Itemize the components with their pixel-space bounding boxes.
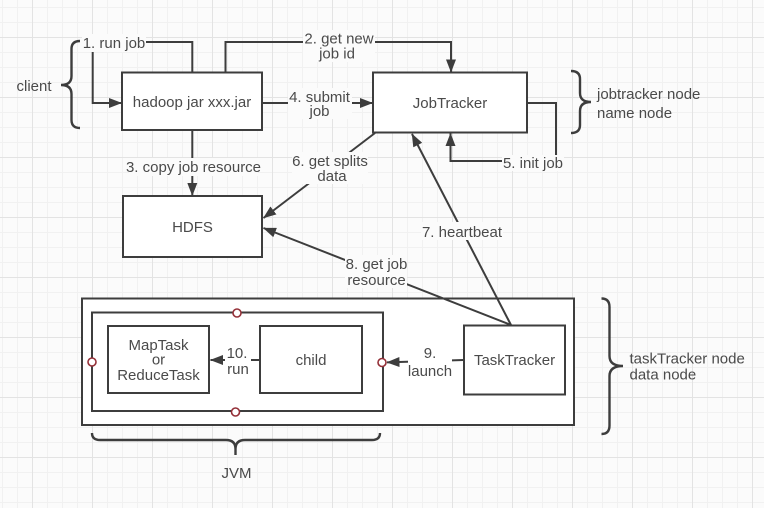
label 2. get new job id: [303, 30, 375, 63]
svg-text:3. copy job resource: 3. copy job resource: [126, 159, 261, 176]
label client: [16, 78, 52, 95]
wire 3: hadoop bottom to HDFS top: [191, 131, 193, 196]
brace client (left): [61, 41, 80, 128]
box hadoop jar xxx.jar: [122, 73, 262, 131]
svg-text:hadoop jar xxx.jar: hadoop jar xxx.jar: [133, 94, 251, 111]
svg-text:HDFS: HDFS: [172, 219, 213, 236]
box inner JVM container: [92, 313, 383, 412]
label taskTracker node / data node: [630, 351, 745, 384]
svg-text:child: child: [296, 352, 327, 369]
label 10. run: [225, 345, 251, 378]
svg-text:jobtracker node: jobtracker node: [596, 86, 700, 103]
wire 9: TaskTracker left to inner JVM box (launch): [387, 360, 463, 362]
svg-text:JVM: JVM: [222, 465, 252, 482]
label 3. copy job resource: [126, 158, 261, 176]
brace JVM (bottom): [92, 433, 380, 455]
svg-text:7. heartbeat: 7. heartbeat: [422, 224, 503, 241]
node connection point left of JVM box: [88, 358, 96, 366]
svg-text:launch: launch: [408, 363, 452, 380]
svg-text:job: job: [308, 103, 329, 120]
brace jobtracker node (right of JobTracker): [571, 71, 591, 133]
label jobtracker node / name node: [596, 86, 700, 122]
label 1. run job: [82, 34, 146, 52]
wire 2: hadoop top to JobTracker top: [226, 42, 452, 72]
svg-text:resource: resource: [347, 272, 405, 289]
svg-text:taskTracker node: taskTracker node: [630, 351, 745, 368]
node connection point bottom of JVM box: [232, 408, 240, 416]
node connection point right of JVM box: [378, 359, 386, 367]
svg-text:run: run: [227, 361, 249, 378]
svg-text:8. get job: 8. get job: [346, 256, 408, 273]
wire 1a: from label "1. run job" to top of hadoop box: [146, 42, 192, 72]
wire 10: child left to MapTask right (run): [211, 359, 260, 361]
box MapTask or ReduceTask: [108, 326, 209, 393]
wire 7: TaskTracker top to JobTracker bottom (heartbeat): [412, 134, 511, 325]
wire 1b: arrow into left side of hadoop box: [93, 52, 122, 103]
svg-text:ReduceTask: ReduceTask: [117, 367, 200, 384]
wire 5: JobTracker right loop back into bottom: [451, 103, 557, 161]
svg-text:data: data: [317, 168, 347, 185]
label 5. init job: [502, 155, 564, 172]
svg-text:or: or: [152, 352, 165, 369]
box JobTracker: [373, 73, 527, 133]
label 9. launch: [408, 344, 452, 380]
label 4. submit job: [288, 88, 352, 120]
box TaskTracker: [464, 326, 565, 395]
svg-text:data node: data node: [630, 367, 697, 384]
svg-text:5. init job: 5. init job: [503, 155, 563, 172]
svg-text:1. run job: 1. run job: [83, 35, 146, 52]
label 7. heartbeat: [421, 222, 503, 241]
label 6. get splits data: [292, 152, 368, 185]
box outer tasktracker-node container: [82, 299, 574, 426]
svg-text:9.: 9.: [424, 345, 437, 362]
box child: [260, 326, 362, 393]
node connection point top of JVM box: [233, 309, 241, 317]
wire 4: hadoop right to JobTracker left: [263, 102, 373, 104]
svg-text:job id: job id: [318, 46, 355, 63]
svg-text:TaskTracker: TaskTracker: [474, 352, 555, 369]
label 8. get job resource: [345, 255, 407, 289]
brace taskTracker node (right of container): [602, 299, 624, 435]
wire 6: JobTracker bottom-left to HDFS right: [264, 133, 376, 218]
svg-text:JobTracker: JobTracker: [413, 95, 487, 112]
label JVM: [222, 465, 252, 482]
svg-text:name node: name node: [597, 105, 672, 122]
svg-text:client: client: [16, 78, 52, 95]
box HDFS: [123, 196, 262, 257]
svg-text:10.: 10.: [227, 345, 248, 362]
wire 8: TaskTracker top to HDFS right: [264, 228, 512, 325]
